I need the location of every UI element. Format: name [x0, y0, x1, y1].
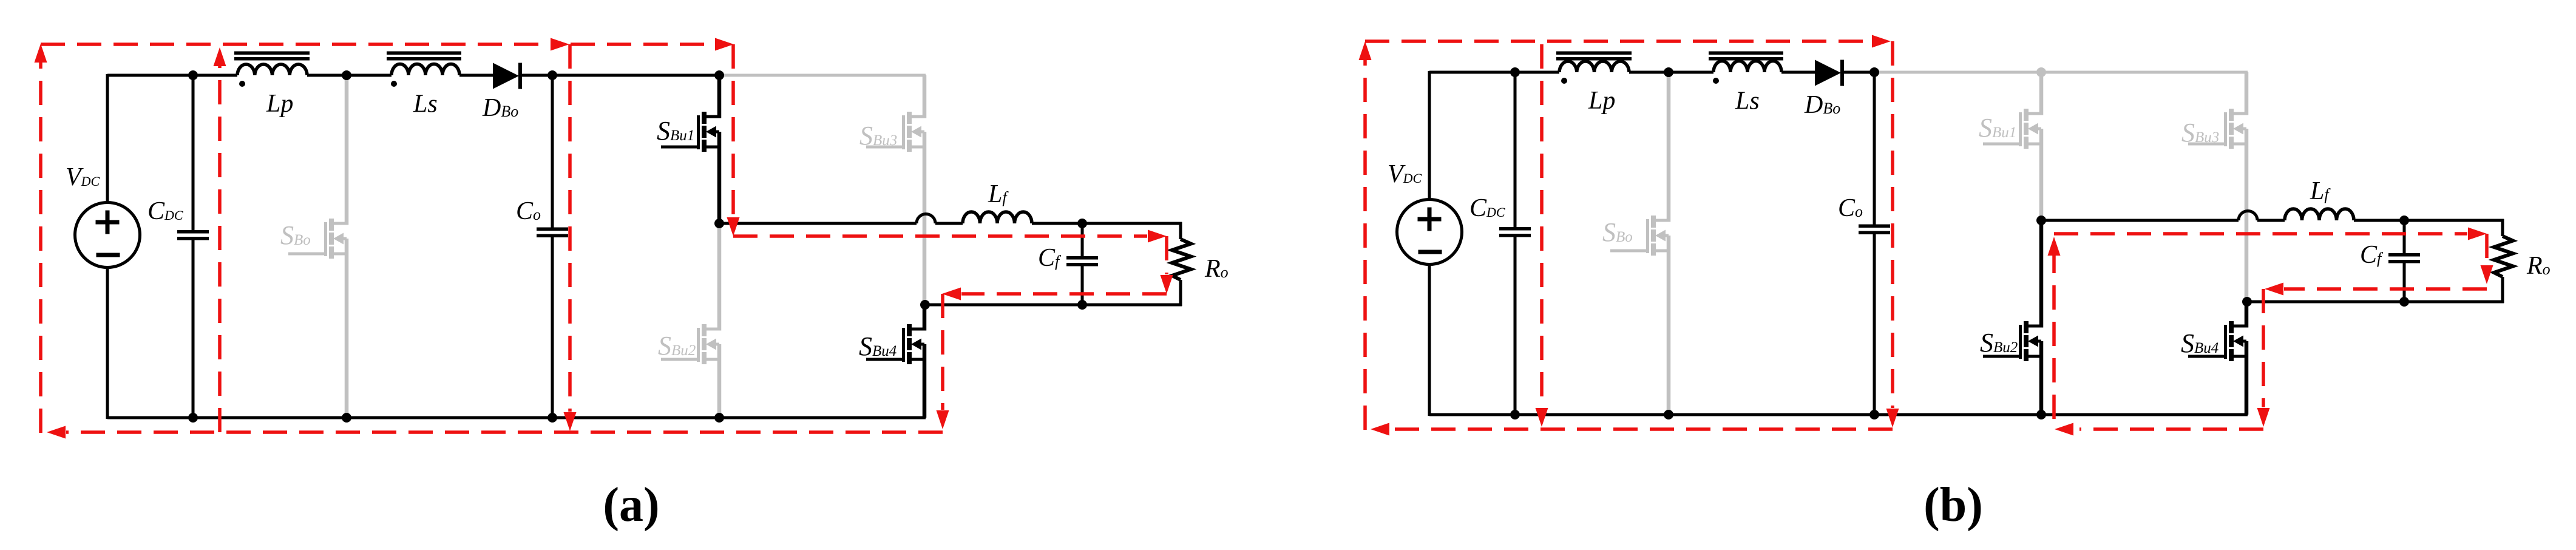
wire hop over right leg — [2239, 211, 2257, 220]
node Cf bottom — [2399, 297, 2409, 307]
red path b left vertical — [1363, 59, 1367, 430]
resistor Ro — [1179, 222, 1182, 239]
node Cf top — [2399, 216, 2409, 225]
node bridge mid — [2036, 216, 2046, 225]
node Co top — [547, 70, 557, 80]
svg-text:SBu3: SBu3 — [859, 121, 897, 151]
node bridge bottom — [714, 413, 724, 423]
svg-text:SBu4: SBu4 — [2181, 328, 2218, 358]
svg-text:SBo: SBo — [280, 220, 311, 250]
wire hop to Lf — [935, 222, 963, 225]
transistor S_Bo with branch wire — [1667, 72, 1671, 222]
red path Ro down — [1165, 236, 1168, 274]
inductor Ls core bars — [1709, 52, 1783, 55]
red path top line seg2 — [571, 42, 714, 46]
wire Lf to output corner — [2354, 219, 2504, 222]
wire diode to bridge top node — [1842, 71, 1876, 74]
transistor S_Bu1 with leg wire — [717, 75, 722, 118]
wire between Lp and Ls — [307, 74, 391, 77]
inductor Lp winding — [1559, 61, 1629, 72]
svg-text:Lp: Lp — [1588, 87, 1615, 115]
node S_Bo top — [342, 70, 351, 80]
transistor S_Bu2 with leg wire — [2039, 220, 2044, 328]
wire V_DC left branch lower — [1428, 264, 1431, 416]
Lp phase dot — [1561, 78, 1567, 84]
Lp phase dot — [239, 81, 245, 87]
node S_Bu4 top — [2242, 297, 2252, 307]
svg-text:SBu2: SBu2 — [658, 331, 696, 361]
red path b bottom line 1 — [1390, 427, 1893, 431]
wire between Lp and Ls — [1629, 71, 1713, 74]
svg-text:SBu4: SBu4 — [859, 331, 897, 361]
red path b lower line — [2284, 287, 2487, 291]
svg-text:Cf: Cf — [2360, 241, 2384, 269]
node Co top — [1869, 67, 1879, 77]
Ls phase dot — [1713, 78, 1719, 84]
red path b S_Bu2 vertical — [2052, 255, 2056, 419]
red path b Ro down — [2485, 234, 2489, 265]
svg-text:DBo: DBo — [1804, 91, 1840, 119]
capacitor Co — [1873, 72, 1876, 225]
svg-text:SBo: SBo — [1602, 217, 1633, 247]
red path bottom line — [66, 430, 943, 434]
wire bridge mid to hop — [719, 222, 917, 225]
red path S_Bu4 down — [941, 294, 944, 410]
wire V_DC left branch lower — [106, 267, 109, 419]
node bridge mid — [714, 219, 724, 228]
capacitor C_DC — [1514, 72, 1517, 227]
svg-text:CDC: CDC — [147, 197, 183, 225]
transistor S_Bu2 with leg wire — [717, 223, 722, 331]
wire top extension to S_Bu3 — [2041, 71, 2248, 74]
red path b top line — [1365, 39, 1871, 43]
svg-text:Ls: Ls — [1735, 87, 1760, 115]
node C_DC bottom — [1510, 410, 1520, 419]
red path top line seg1 — [41, 42, 550, 46]
wire output bottom — [2247, 300, 2504, 304]
red path mid line — [733, 234, 1147, 238]
node Cf bottom — [1077, 300, 1087, 310]
svg-text:Cf: Cf — [1038, 244, 1062, 272]
node S_Bu4 top — [920, 300, 930, 310]
inductor Lf — [2285, 209, 2354, 220]
inductor Lp winding — [237, 64, 307, 75]
svg-text:Ro: Ro — [1204, 255, 1229, 283]
transistor S_Bu3 with leg wire — [923, 75, 927, 118]
red path Co vertical — [568, 44, 572, 412]
red path b mid line — [2054, 232, 2467, 236]
inductor Ls core bars — [387, 52, 461, 55]
red path b bottom line 2 — [2079, 427, 2263, 431]
svg-text:Lf: Lf — [2310, 177, 2331, 205]
wire top left V_DC to Lp — [1429, 71, 1559, 74]
wire hop over right leg — [917, 214, 935, 224]
inductor Lp core bars — [1556, 52, 1632, 55]
transistor S_Bu1 with leg wire — [2039, 72, 2044, 115]
node C_DC top — [188, 70, 198, 80]
diode D_Bo — [493, 63, 519, 89]
svg-text:Co: Co — [516, 197, 541, 225]
red path left vertical — [39, 62, 42, 433]
node C_DC top — [1510, 67, 1520, 77]
V_DC minus sign — [97, 253, 120, 257]
source V_DC circle — [1397, 200, 1462, 265]
red path b S_Bu4 down — [2262, 289, 2265, 407]
node bridge top — [2036, 67, 2046, 77]
node S_Bo bottom — [342, 413, 351, 423]
node S_Bo bottom — [1664, 410, 1673, 419]
source V_DC circle — [75, 203, 140, 268]
wire bottom rail — [1429, 413, 2248, 416]
V_DC minus sign — [1418, 250, 1442, 254]
inductor Ls winding — [391, 64, 459, 75]
wire top left V_DC to Lp — [107, 74, 237, 77]
node S_Bo top — [1664, 67, 1673, 77]
red path b Co vertical — [1891, 41, 1894, 408]
svg-text:SBu1: SBu1 — [1979, 113, 2016, 143]
transistor S_Bo with branch wire — [345, 75, 349, 225]
svg-text:Co: Co — [1838, 194, 1863, 222]
resistor Ro — [2501, 219, 2504, 236]
svg-text:Lf: Lf — [988, 180, 1009, 208]
wire hop to Lf — [2257, 219, 2285, 222]
wire diode to bridge top node — [520, 74, 720, 77]
inductor Ls winding — [1713, 61, 1781, 72]
diode D_Bo — [1815, 60, 1841, 86]
svg-text:Ro: Ro — [2526, 252, 2551, 280]
node bridge bottom — [2036, 410, 2046, 419]
svg-text:DBo: DBo — [482, 94, 518, 122]
capacitor C_DC — [192, 75, 195, 230]
red path S_Bu1 vertical — [731, 44, 735, 217]
svg-text:VDC: VDC — [1388, 160, 1422, 188]
svg-text:(b): (b) — [1924, 478, 1983, 532]
svg-text:(a): (a) — [603, 478, 659, 532]
transistor S_Bu3 with leg wire — [2245, 72, 2249, 115]
svg-text:SBu1: SBu1 — [657, 116, 694, 146]
wire output bottom — [925, 304, 1182, 307]
node Cf top — [1077, 219, 1087, 228]
V_DC plus sign — [1418, 217, 1442, 222]
wire Ls to diode — [1781, 71, 1816, 74]
wire Ls to diode — [459, 74, 494, 77]
wire bridge mid to hop — [2041, 219, 2239, 222]
red path C_DC vertical — [218, 66, 222, 432]
wire Lf to output corner — [1032, 222, 1182, 225]
capacitor Cf — [1081, 223, 1084, 256]
Ls phase dot — [391, 81, 397, 87]
wire V_DC left branch upper — [106, 74, 109, 203]
svg-text:Lp: Lp — [266, 90, 293, 118]
red path b C_DC vertical — [1540, 44, 1544, 408]
red path lower line — [961, 292, 1167, 296]
transistor S_Bu4 with leg wire — [923, 305, 927, 331]
node Co bottom — [547, 413, 557, 423]
svg-text:CDC: CDC — [1469, 194, 1505, 222]
capacitor Co — [551, 75, 554, 228]
V_DC plus sign — [96, 220, 120, 225]
inductor Lf — [963, 212, 1032, 223]
svg-text:VDC: VDC — [66, 163, 100, 191]
node C_DC bottom — [188, 413, 198, 423]
svg-text:Ls: Ls — [413, 90, 438, 118]
node bridge top — [714, 70, 724, 80]
capacitor Cf — [2403, 220, 2406, 253]
transistor S_Bu4 with leg wire — [2245, 302, 2249, 328]
svg-text:SBu2: SBu2 — [1980, 328, 2018, 358]
svg-text:SBu3: SBu3 — [2181, 118, 2219, 148]
wire top extension to S_Bu3 — [719, 74, 926, 77]
node Co bottom — [1869, 410, 1879, 419]
wire V_DC left branch upper — [1428, 71, 1431, 200]
inductor Lp core bars — [234, 52, 310, 55]
wire bottom rail — [107, 416, 926, 419]
